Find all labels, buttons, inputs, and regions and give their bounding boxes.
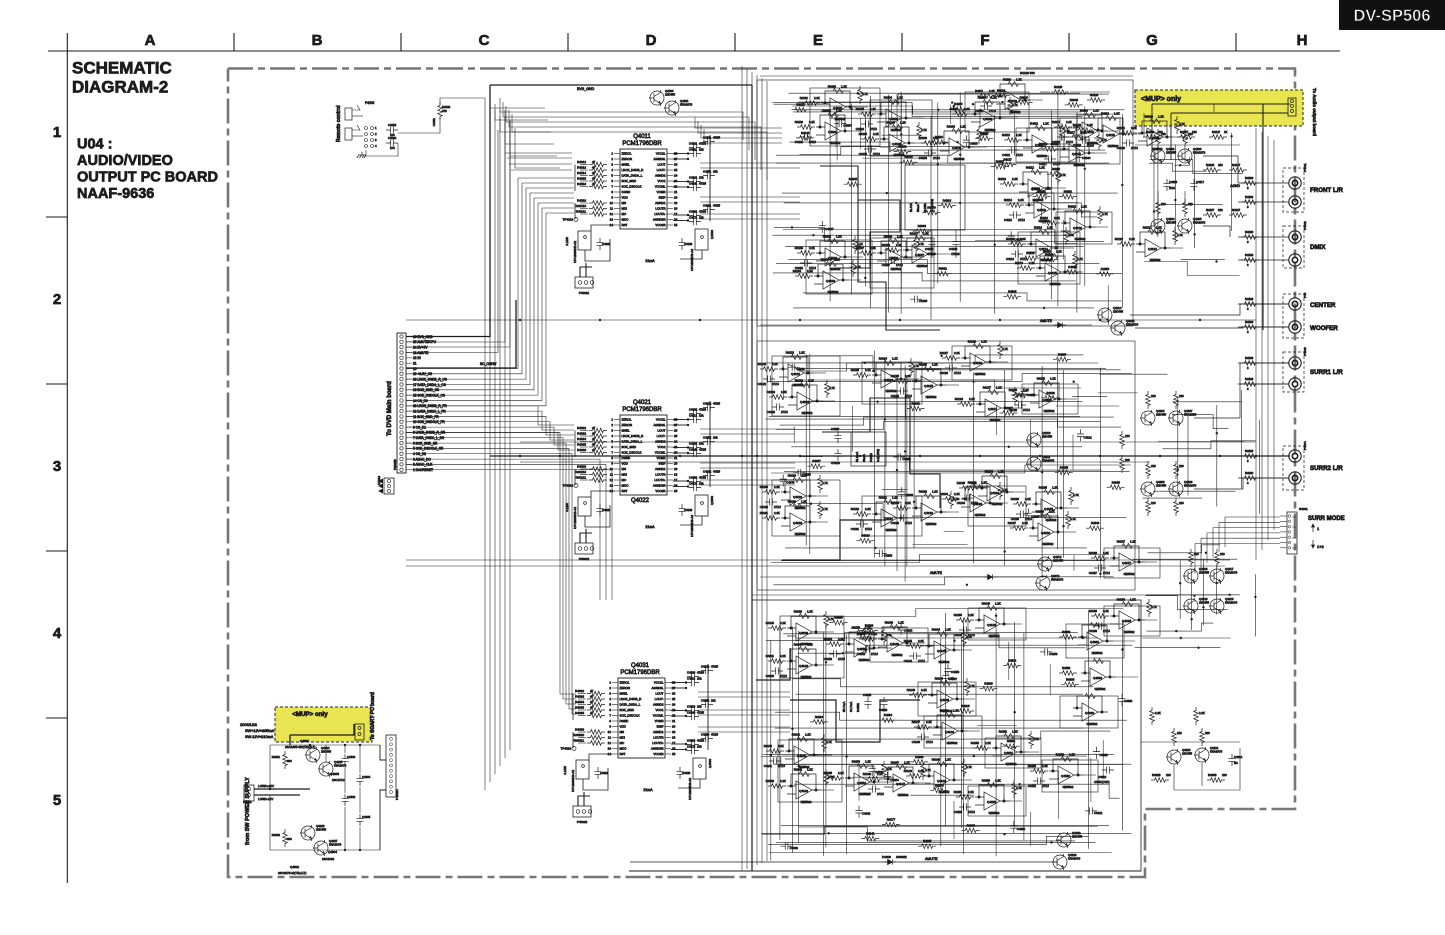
- wire op-amp out: [907, 378, 919, 380]
- resistor R311 47: [587, 735, 605, 740]
- op-amp Q4137 NE5532: [1110, 544, 1145, 572]
- svg-text:R4035: R4035: [575, 706, 584, 710]
- svg-text:SCK_DSDCLK: SCK_DSDCLK: [622, 451, 642, 455]
- capacitor C4117: [1190, 179, 1197, 191]
- svg-text:MDI: MDI: [620, 736, 626, 740]
- svg-text:BL4VA: BL4VA: [909, 203, 913, 212]
- svg-text:R4137: R4137: [1206, 208, 1215, 212]
- svg-text:R4128: R4128: [1037, 377, 1046, 381]
- resistor output stage: [1146, 498, 1151, 516]
- wire bottom-right stage: [1141, 741, 1240, 743]
- svg-text:10k: 10k: [697, 705, 702, 709]
- resistor scatter: [999, 162, 1017, 167]
- svg-text:R4356: R4356: [1101, 267, 1110, 271]
- resistor R4151a: [973, 746, 991, 751]
- op-amp Q4128 NE5532: [1030, 381, 1065, 409]
- wire mesh: [1147, 623, 1214, 631]
- wire scatter: [996, 405, 998, 435]
- svg-text:C4131: C4131: [851, 527, 860, 531]
- resistor jack series: [1241, 302, 1259, 307]
- svg-text:27ZU: 27ZU: [1066, 140, 1073, 144]
- svg-text:R4239: R4239: [865, 623, 874, 627]
- svg-text:R4112: R4112: [1026, 166, 1034, 170]
- svg-text:R4383: R4383: [1112, 480, 1121, 484]
- svg-text:NE5532: NE5532: [1046, 518, 1057, 522]
- svg-text:C4314: C4314: [1234, 755, 1243, 759]
- svg-text:220: 220: [1218, 208, 1223, 212]
- wire mesh vertical: [1216, 565, 1218, 614]
- resistor R4108a: [921, 141, 939, 146]
- wire CS data line: [406, 188, 526, 379]
- svg-text:DATA_DSDA_L: DATA_DSDA_L: [620, 703, 641, 707]
- capacitor C425: [703, 438, 715, 445]
- svg-text:2.2K: 2.2K: [1131, 126, 1137, 130]
- connector P2006 To DVD Main board: [397, 333, 406, 473]
- wire feedback loop: [985, 738, 1041, 768]
- wire op-amp out: [1084, 774, 1096, 776]
- svg-text:1.2K: 1.2K: [892, 357, 898, 361]
- capacitor C4144: [909, 652, 921, 659]
- wire op-amp out: [822, 664, 834, 666]
- transistor Q4220: [1166, 749, 1181, 765]
- svg-text:1: 1: [609, 681, 611, 685]
- svg-text:R4143: R4143: [766, 779, 775, 783]
- svg-text:NE5532: NE5532: [954, 157, 965, 161]
- op-amp Q4106 NE5532: [877, 239, 912, 267]
- op-amp Q4151 NE5532: [992, 734, 1027, 762]
- wire scatter: [913, 544, 968, 546]
- wire mesh: [766, 419, 1121, 427]
- wire scatter: [852, 406, 854, 452]
- svg-text:C4294: C4294: [890, 778, 899, 782]
- wire mesh vertical: [937, 103, 939, 284]
- resistor jack series: [1241, 454, 1259, 459]
- svg-text:1.2K: 1.2K: [1045, 187, 1051, 191]
- resistor R4127b: [1013, 387, 1018, 405]
- capacitor scatter: [834, 120, 846, 127]
- wire bias box feeds: [931, 230, 933, 237]
- wire feedback loop: [870, 238, 934, 288]
- connector box P4003: [1283, 352, 1304, 392]
- transistor Q4211: [1026, 456, 1041, 472]
- svg-text:6 BCK_GND_SR: 6 BCK_GND_SR: [413, 441, 438, 445]
- capacitor C4113: [1009, 211, 1021, 218]
- svg-text:R4104: R4104: [884, 96, 893, 100]
- svg-text:R4150: R4150: [954, 613, 963, 617]
- capacitor C434: [687, 713, 699, 720]
- svg-text:Q4149: Q4149: [987, 623, 996, 627]
- capacitor scatter: [793, 469, 805, 476]
- svg-text:220: 220: [1166, 773, 1171, 777]
- wire op-amp out: [919, 782, 931, 784]
- wire jack feed: [1238, 182, 1289, 184]
- svg-text:19: 19: [674, 467, 678, 471]
- svg-text:2SD655: 2SD655: [1166, 221, 1177, 225]
- svg-text:VCC1: VCC1: [657, 445, 665, 449]
- svg-text:C4307: C4307: [949, 677, 958, 681]
- wire scatter: [793, 427, 795, 443]
- svg-text:2SD655: 2SD655: [1199, 601, 1210, 605]
- svg-text:0: 0: [1247, 186, 1249, 190]
- resistor R15 47: [589, 179, 607, 184]
- wire scatter: [863, 157, 924, 159]
- wire scatter: [835, 112, 837, 148]
- resistor R4132a: [893, 506, 911, 511]
- wire mesh: [800, 147, 1094, 155]
- capacitor C4141: [769, 757, 781, 764]
- svg-text:47: 47: [592, 166, 596, 170]
- resistor R4128a: [1011, 393, 1029, 398]
- svg-text:SURR2 L/R: SURR2 L/R: [1310, 465, 1343, 472]
- svg-text:R4117: R4117: [1067, 131, 1075, 135]
- svg-text:AGND3R: AGND3R: [653, 484, 666, 488]
- svg-text:R4105: R4105: [887, 121, 896, 125]
- svg-text:0.12W: 0.12W: [565, 503, 569, 512]
- svg-text:NE5532: NE5532: [892, 653, 903, 657]
- wire op-amp out: [1065, 398, 1077, 400]
- resistor R4114a: [1008, 242, 1026, 247]
- svg-text:R4126: R4126: [891, 374, 900, 378]
- resistor R110 47: [589, 201, 607, 206]
- svg-text:To DVD Main board: To DVD Main board: [387, 381, 393, 436]
- svg-text:TP4013: TP4013: [562, 484, 573, 488]
- svg-text:VCOML: VCOML: [655, 451, 666, 455]
- svg-text:VCOML: VCOML: [655, 185, 666, 189]
- resistor R14 47: [589, 173, 607, 178]
- svg-text:2.2K: 2.2K: [780, 621, 786, 625]
- capacitor scatter: [1077, 429, 1084, 441]
- svg-text:11 BCK_GND_FR: 11 BCK_GND_FR: [413, 415, 439, 419]
- svg-text:R4110: R4110: [935, 135, 943, 139]
- wire mesh: [1172, 415, 1228, 429]
- diode D4609: [884, 859, 896, 864]
- svg-text:KRA107S: KRA107S: [680, 103, 692, 107]
- capacitor C4135: [1016, 510, 1028, 517]
- svg-text:R4366: R4366: [834, 616, 843, 620]
- wire mesh: [775, 712, 1127, 720]
- svg-text:Q4137: Q4137: [1122, 561, 1131, 565]
- capacitor scatter: [855, 806, 862, 818]
- resistor scatter: [893, 149, 911, 154]
- svg-text:R4177: R4177: [887, 818, 896, 822]
- svg-text:19 +3.3V_CS: 19 +3.3V_CS: [413, 372, 432, 376]
- resistor scatter: [1040, 257, 1058, 262]
- svg-text:C4152: C4152: [1028, 784, 1037, 788]
- svg-text:1.5WA-12V: 1.5WA-12V: [258, 797, 273, 801]
- svg-text:C4104: C4104: [856, 127, 865, 131]
- svg-text:R4151: R4151: [999, 730, 1008, 734]
- connector P40023: [573, 806, 591, 817]
- svg-text:25: 25: [674, 434, 678, 438]
- capacitor scatter: [869, 764, 876, 776]
- resistor R4143a: [859, 637, 877, 642]
- svg-text:4.7K: 4.7K: [829, 386, 835, 390]
- svg-text:R4252: R4252: [869, 453, 873, 462]
- svg-text:To SCART PC board: To SCART PC board: [370, 692, 376, 740]
- resistor jack series: [1241, 476, 1259, 481]
- svg-text:Q4152: Q4152: [1061, 774, 1070, 778]
- svg-text:KRA107S: KRA107S: [1193, 151, 1205, 155]
- svg-text:2SC2712: 2SC2712: [332, 778, 345, 782]
- capacitor scatter: [893, 453, 905, 460]
- svg-text:U04 :: U04 :: [77, 137, 112, 153]
- wire mesh: [780, 417, 1114, 425]
- capacitor C430: [687, 673, 699, 680]
- resistor R112 47: [589, 212, 607, 217]
- op-amp Q4140 NE5532: [787, 647, 822, 675]
- svg-text:R4165: R4165: [1060, 465, 1069, 469]
- RCA jack SURR1 L/R: [1289, 378, 1301, 390]
- svg-text:R40210: R40210: [575, 470, 586, 474]
- svg-text:R4145: R4145: [904, 639, 913, 643]
- svg-text:C4132: C4132: [891, 521, 900, 525]
- resistor R4147 1K: [1209, 135, 1227, 140]
- svg-text:R4901: R4901: [272, 755, 281, 759]
- op-amp Q4123 NE5532: [788, 383, 823, 411]
- svg-text:C4158: C4158: [1049, 652, 1058, 656]
- svg-text:2.2K: 2.2K: [774, 485, 780, 489]
- capacitor scatter: [942, 671, 949, 683]
- svg-text:47/25: 47/25: [713, 402, 720, 406]
- svg-text:C4126: C4126: [940, 371, 949, 375]
- svg-text:47/25: 47/25: [699, 142, 706, 146]
- capacitor C4134: [962, 494, 974, 501]
- svg-text:F: F: [980, 32, 989, 49]
- svg-text:RST: RST: [620, 752, 626, 756]
- svg-text:C4117: C4117: [1196, 180, 1204, 184]
- svg-text:R4140: R4140: [794, 643, 803, 647]
- wire cap bus: [709, 135, 711, 221]
- wires center/woofer feed: [1130, 304, 1288, 315]
- wire remote to bus: [398, 118, 440, 133]
- transistor Q4202: [1150, 148, 1165, 164]
- resistor R4135a: [1013, 502, 1031, 507]
- resistor scatter: [991, 164, 1009, 169]
- resistor R312 47: [587, 741, 605, 746]
- capacitor C4312: [1102, 766, 1114, 773]
- wire AMUTE/CPU nets to DAC: [505, 152, 572, 154]
- wire scatter: [1041, 203, 1043, 218]
- resistor scatter: [844, 182, 862, 187]
- wire scatter: [944, 531, 964, 533]
- svg-text:TP4013: TP4013: [560, 747, 571, 751]
- wire mesh vertical: [1187, 415, 1189, 495]
- capacitor C412: [703, 138, 715, 145]
- capacitor scatter: [1076, 150, 1083, 162]
- svg-text:VCC2L: VCC2L: [656, 152, 666, 156]
- svg-text:R4120: R4120: [1145, 115, 1154, 119]
- svg-text:2SD655: 2SD655: [665, 93, 676, 97]
- svg-text:21: 21: [413, 361, 417, 365]
- wire op-amp out: [814, 372, 826, 374]
- resistor scatter: [810, 720, 828, 725]
- wire op-amp out: [1171, 247, 1183, 249]
- svg-text:Q4003: Q4003: [710, 496, 714, 505]
- svg-text:C4102: C4102: [689, 408, 698, 412]
- transistor Q4219: [1209, 598, 1224, 614]
- svg-text:R4348: R4348: [1070, 98, 1079, 102]
- svg-text:47: 47: [592, 160, 596, 164]
- svg-text:2.2K: 2.2K: [905, 501, 911, 505]
- svg-text:47: 47: [592, 437, 596, 441]
- svg-text:18: 18: [674, 207, 678, 211]
- svg-text:LOUTR: LOUTR: [655, 207, 666, 211]
- svg-text:1.2K: 1.2K: [1012, 730, 1018, 734]
- capacitor scatter: [1040, 648, 1052, 655]
- wire SR data line: [406, 454, 576, 714]
- capacitor scatter: [788, 364, 800, 371]
- resistor output stage: [1120, 431, 1125, 449]
- svg-text:R4127: R4127: [983, 386, 992, 390]
- wire scatter: [782, 366, 784, 400]
- wire op-amp out: [1031, 99, 1043, 101]
- svg-text:10k: 10k: [699, 176, 704, 180]
- op-amp Q4113 NE5532: [1025, 191, 1060, 219]
- svg-text:2006/1/23: 2006/1/23: [240, 723, 257, 727]
- svg-text:KRA107S: KRA107S: [1193, 221, 1205, 225]
- svg-text:47/25: 47/25: [713, 204, 720, 208]
- wire mesh: [1142, 637, 1230, 639]
- svg-text:47/25: 47/25: [699, 182, 706, 186]
- wire cap bus: [707, 664, 709, 750]
- svg-text:C4163: C4163: [687, 739, 696, 743]
- svg-text:C4125: C4125: [891, 394, 900, 398]
- resistor output stage: [1146, 461, 1151, 479]
- svg-text:34.7mA: 34.7mA: [849, 702, 853, 712]
- wire cap feed: [673, 153, 688, 155]
- svg-text:D: D: [646, 32, 657, 49]
- svg-text:R4130: R4130: [788, 500, 797, 504]
- svg-text:47: 47: [592, 448, 596, 452]
- svg-text:C4261: C4261: [797, 367, 806, 371]
- svg-text:VCOML: VCOML: [653, 714, 664, 718]
- svg-text:1: 1: [611, 152, 613, 156]
- svg-text:2SD655: 2SD655: [1053, 559, 1064, 563]
- svg-text:C4173: C4173: [687, 745, 696, 749]
- svg-text:2.2K: 2.2K: [985, 741, 991, 745]
- svg-text:LOUT-: LOUT-: [657, 168, 666, 172]
- svg-text:4.7K: 4.7K: [1179, 122, 1185, 126]
- wire FR data line: [406, 422, 574, 440]
- wire CS data line: [406, 178, 518, 368]
- svg-text:NE5532: NE5532: [1063, 785, 1074, 789]
- wire cap feed: [671, 682, 686, 684]
- resistor R4154a: [826, 776, 844, 781]
- svg-text:R4119: R4119: [1101, 112, 1109, 116]
- wire mesh vertical: [1157, 145, 1159, 237]
- transistor Q4221: [1194, 747, 1209, 763]
- wire scatter: [1073, 555, 1075, 571]
- connector P2006 lower pins: [384, 478, 394, 494]
- svg-text:4.7K: 4.7K: [966, 765, 972, 769]
- svg-text:Q4107: Q4107: [915, 253, 924, 257]
- wire mesh: [788, 456, 1101, 470]
- wire mesh: [798, 94, 1109, 102]
- svg-text:Q4031: Q4031: [631, 663, 650, 669]
- svg-text:C4028: C4028: [682, 771, 691, 775]
- transistor Q4225: [318, 761, 333, 777]
- svg-text:Q4361: Q4361: [1090, 640, 1099, 644]
- border frame: column tick: [901, 33, 903, 51]
- svg-text:1.2K: 1.2K: [1016, 78, 1022, 82]
- svg-text:R4154: R4154: [852, 760, 861, 764]
- capacitor C4147: [868, 785, 880, 792]
- capacitor C4026: [594, 767, 601, 779]
- svg-text:27ZU: 27ZU: [905, 521, 912, 525]
- resistor R4112b: [1056, 167, 1061, 185]
- resistor output stage: [1183, 129, 1188, 147]
- resistor scatter: [1055, 470, 1073, 475]
- diode D4008: [1054, 322, 1066, 327]
- bus top-right horizontal: [760, 75, 1133, 77]
- svg-text:220: 220: [1222, 773, 1227, 777]
- svg-text:R4139: R4139: [1245, 230, 1254, 234]
- svg-text:LOUT-: LOUT-: [655, 697, 664, 701]
- regulator UPC2805B: [695, 495, 708, 516]
- svg-text:E1018: E1018: [377, 476, 381, 485]
- op-amp Q4146 NE5532: [933, 713, 968, 741]
- svg-text:1.2K: 1.2K: [799, 351, 805, 355]
- svg-text:IREF: IREF: [657, 725, 664, 729]
- wire mesh vertical: [959, 92, 961, 301]
- svg-text:3 ADAC_DO: 3 ADAC_DO: [413, 457, 431, 461]
- resistor R4133b: [998, 482, 1003, 500]
- svg-text:R4140: R4140: [766, 621, 775, 625]
- wire mesh: [1149, 163, 1206, 171]
- svg-text:AGND1: AGND1: [655, 201, 666, 205]
- wire mesh: [776, 155, 1077, 163]
- capacitor C4129: [765, 498, 777, 505]
- wire op-amp out: [915, 142, 927, 144]
- resistor R4111a: [1004, 138, 1022, 143]
- svg-text:R4156: R4156: [954, 102, 963, 106]
- svg-text:Q4128: Q4128: [1042, 398, 1051, 402]
- wire mesh vertical: [846, 635, 848, 855]
- svg-text:SW+12V=265mA: SW+12V=265mA: [245, 729, 275, 733]
- svg-text:47/25: 47/25: [713, 470, 720, 474]
- svg-text:Q4127: Q4127: [988, 407, 997, 411]
- border frame: row tick: [46, 383, 67, 385]
- transistor Q4215: [1110, 320, 1125, 336]
- wire scatter: [799, 456, 822, 458]
- svg-text:1.2K: 1.2K: [807, 643, 813, 647]
- svg-text:2: 2: [611, 423, 613, 427]
- svg-text:R433B: R433B: [1208, 773, 1217, 777]
- svg-text:PCM1796DBR: PCM1796DBR: [622, 407, 662, 413]
- svg-text:4: 4: [53, 625, 62, 642]
- svg-text:C4333: C4333: [1124, 699, 1133, 703]
- svg-text:1: 1: [611, 418, 613, 422]
- resistor R4149a: [956, 618, 974, 623]
- svg-text:C4154: C4154: [951, 670, 960, 674]
- transistor Q4223: [1052, 854, 1067, 870]
- wire op-amp out: [856, 106, 868, 108]
- svg-text:R4125: R4125: [1054, 85, 1063, 89]
- svg-text:10 SCK_DSDCLK_FR: 10 SCK_DSDCLK_FR: [413, 420, 445, 424]
- svg-text:2: 2: [375, 132, 377, 136]
- wire jack feed: [1238, 455, 1289, 457]
- svg-text:NE5532: NE5532: [1044, 409, 1055, 413]
- capacitor scatter: [1008, 231, 1015, 243]
- svg-text:R4116: R4116: [1015, 261, 1023, 265]
- regulator UPC2930B: [578, 231, 591, 250]
- svg-text:R4149: R4149: [982, 602, 991, 606]
- resistor scatter: [930, 140, 948, 145]
- svg-text:4756U(TSP): 4756U(TSP): [1094, 780, 1110, 784]
- svg-text:1: 1: [1317, 526, 1320, 531]
- op-amp Q4122 NE5532: [779, 355, 814, 383]
- svg-text:RST: RST: [622, 223, 628, 227]
